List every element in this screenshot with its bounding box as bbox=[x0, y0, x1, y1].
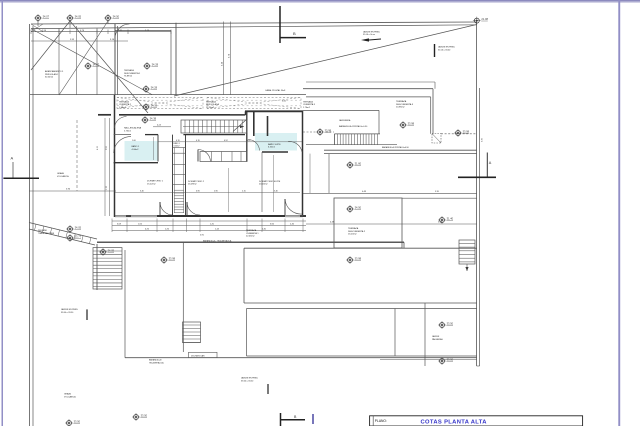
suite entry door arc bbox=[248, 140, 260, 151]
svg-text:PERGOLADO: PERGOLADO bbox=[45, 73, 59, 76]
pergola diagonal right bbox=[70, 21, 148, 113]
dim line 5.90 bbox=[29, 190, 116, 192]
svg-text:TERRAZA: TERRAZA bbox=[124, 69, 134, 72]
svg-text:33.98: 33.98 bbox=[408, 121, 415, 125]
svg-text:0.70: 0.70 bbox=[176, 140, 180, 142]
wardrobe bedroom 2 bbox=[200, 152, 247, 162]
spot level marker 34.39 bbox=[142, 103, 158, 111]
svg-text:34.05: 34.05 bbox=[75, 225, 82, 229]
top dimension line 2 bbox=[31, 40, 128, 42]
svg-text:JARDIN: JARDIN bbox=[432, 335, 440, 338]
svg-text:33.98: 33.98 bbox=[169, 256, 176, 260]
pool outer bbox=[244, 247, 477, 249]
vertical x59 bbox=[58, 29, 60, 95]
street boundary line outer bbox=[29, 24, 31, 426]
svg-text:JARDINERA: JARDINERA bbox=[339, 119, 351, 122]
svg-text:34.50: 34.50 bbox=[355, 205, 362, 209]
window glazing lines bottom wall bbox=[115, 214, 157, 216]
svg-text:DESCUBIERTA 2: DESCUBIERTA 2 bbox=[348, 230, 366, 233]
svg-text:34.28: 34.28 bbox=[151, 85, 158, 89]
vertical x425 bbox=[424, 303, 426, 366]
dim vertical x310 bbox=[309, 154, 311, 194]
drain dashed box bbox=[432, 134, 441, 144]
vertical x329 bbox=[328, 154, 330, 194]
svg-text:33.98: 33.98 bbox=[463, 129, 470, 133]
svg-text:JARDIN EN PEND.: JARDIN EN PEND. bbox=[241, 377, 259, 380]
svg-text:JARDIN EN PEND.: JARDIN EN PEND. bbox=[438, 46, 456, 49]
street boundary line inner bbox=[32, 26, 34, 426]
svg-text:33.50: 33.50 bbox=[74, 419, 81, 423]
svg-text:34.05: 34.05 bbox=[108, 248, 115, 252]
svg-text:A: A bbox=[489, 161, 492, 165]
svg-text:PELDAÑO: PELDAÑO bbox=[38, 229, 48, 232]
svg-text:16.09m2: 16.09m2 bbox=[188, 184, 197, 186]
dorm2 balcony door arc bbox=[187, 202, 200, 215]
svg-text:30.50m2: 30.50m2 bbox=[45, 77, 54, 79]
section marker B top bbox=[279, 6, 281, 43]
svg-text:0.90: 0.90 bbox=[196, 191, 200, 193]
pergola X diagonal bbox=[31, 29, 152, 95]
svg-text:CUBIERTA 2: CUBIERTA 2 bbox=[119, 103, 132, 106]
terrace boundary y193 bbox=[303, 192, 477, 194]
sloped walk with steps bbox=[29, 223, 97, 240]
svg-text:A: A bbox=[11, 156, 14, 161]
spot level marker 33.50 bbox=[65, 419, 81, 426]
spot level marker 33.50 bbox=[438, 357, 454, 365]
pergola diagonal left-down bbox=[59, 21, 108, 95]
svg-text:VOLCANICA: VOLCANICA bbox=[57, 175, 69, 178]
spot level marker 31.60 bbox=[346, 161, 362, 169]
title block bbox=[370, 416, 583, 426]
bath suite door arc bbox=[288, 141, 302, 152]
svg-text:DESCUBIERTA 3: DESCUBIERTA 3 bbox=[396, 103, 414, 106]
purple frame left line bbox=[2, 0, 4, 426]
central shaft cell dividers bbox=[173, 147, 186, 149]
svg-text:10.96m2: 10.96m2 bbox=[396, 107, 405, 109]
svg-text:13.20m2: 13.20m2 bbox=[206, 107, 215, 109]
purple frame top band bbox=[0, 0, 640, 2]
spot level marker 21.08 bbox=[473, 17, 489, 25]
jardinera planter comb hatch bbox=[335, 133, 381, 135]
barandilla lines under jardinera bbox=[324, 149, 477, 151]
pergola slats dashed band bbox=[117, 98, 203, 109]
spot level marker 34.05 bbox=[99, 248, 115, 256]
dim vertical dorm2 bbox=[228, 168, 230, 212]
lower terrace bottom line bbox=[125, 357, 477, 359]
spot level marker 34.07 bbox=[84, 62, 100, 70]
house right wall (thick) bbox=[302, 111, 304, 217]
spot level marker 33.98 bbox=[160, 256, 176, 264]
svg-text:GRAVA: GRAVA bbox=[64, 393, 71, 396]
spot level marker 33.98 bbox=[454, 129, 470, 137]
dim line y192 bbox=[115, 192, 300, 194]
svg-text:5.73m2: 5.73m2 bbox=[124, 130, 132, 132]
jardinera upper box bbox=[303, 109, 379, 111]
terrace boundary y198 bbox=[402, 197, 477, 199]
svg-text:COTAS PLANTA ALTA: COTAS PLANTA ALTA bbox=[421, 419, 488, 425]
suite wardrobe front (thick) bbox=[262, 151, 288, 153]
svg-text:TERRAZA: TERRAZA bbox=[246, 229, 257, 232]
svg-text:CUBIERTA 1: CUBIERTA 1 bbox=[246, 232, 259, 235]
svg-text:33.98: 33.98 bbox=[325, 128, 332, 132]
svg-text:1.62: 1.62 bbox=[247, 140, 251, 142]
interior staircase bbox=[181, 120, 247, 133]
svg-text:34.28: 34.28 bbox=[152, 62, 159, 66]
svg-text:31.06 a 3x.xx: 31.06 a 3x.xx bbox=[363, 34, 375, 36]
spot level marker 34.28 bbox=[142, 85, 158, 93]
pool inner divider bbox=[394, 309, 396, 357]
svg-text:0.52: 0.52 bbox=[224, 140, 228, 142]
dim vertical in bano1 bbox=[153, 137, 155, 160]
svg-text:3.40: 3.40 bbox=[274, 191, 278, 193]
svg-text:DUCHA SOLAR: DUCHA SOLAR bbox=[191, 355, 205, 358]
spot level marker 34.28 bbox=[143, 62, 159, 70]
site top boundary lines bbox=[31, 22, 477, 24]
dim line below house 2 bbox=[112, 225, 306, 227]
small stair right bbox=[459, 240, 475, 264]
terraza descubierta 3 walls bbox=[303, 88, 433, 90]
svg-text:21.08: 21.08 bbox=[481, 17, 488, 21]
right boundary double vertical bbox=[476, 22, 478, 366]
svg-text:APARCAMIENTO 5: APARCAMIENTO 5 bbox=[45, 70, 64, 73]
dim line below house 1 bbox=[112, 220, 306, 222]
svg-text:6.35m2: 6.35m2 bbox=[268, 147, 276, 149]
svg-text:76.89m2: 76.89m2 bbox=[124, 76, 133, 78]
svg-text:1.76m2: 1.76m2 bbox=[303, 107, 311, 109]
svg-text:TERRAZA: TERRAZA bbox=[303, 100, 313, 103]
terraza descubierta 1 walls bbox=[114, 24, 116, 95]
spot level marker 34.38 bbox=[141, 116, 157, 124]
svg-text:TERRAZA: TERRAZA bbox=[348, 227, 359, 230]
svg-text:34.07: 34.07 bbox=[93, 62, 100, 66]
spot level marker 34.07 bbox=[34, 14, 50, 22]
svg-text:BAÑO SUITE: BAÑO SUITE bbox=[268, 143, 281, 146]
svg-text:3.40: 3.40 bbox=[140, 191, 144, 193]
svg-text:2.90: 2.90 bbox=[214, 191, 218, 193]
corner tick diagonal 1 bbox=[31, 24, 43, 32]
bathroom suite cyan fill bbox=[255, 133, 297, 151]
svg-text:34.39: 34.39 bbox=[151, 103, 158, 107]
dim line below house 3 bbox=[112, 230, 306, 232]
svg-text:BARANDILLA CRISTAL H=0.90: BARANDILLA CRISTAL H=0.90 bbox=[382, 146, 409, 149]
svg-text:TRAVIESAS TREN: TRAVIESAS TREN bbox=[38, 232, 55, 235]
svg-text:CUBIERTA 3: CUBIERTA 3 bbox=[303, 103, 316, 106]
svg-text:BARANDILLA /: BARANDILLA / bbox=[149, 359, 162, 362]
svg-text:33.50: 33.50 bbox=[141, 413, 148, 417]
spot level marker 34.50 bbox=[346, 205, 362, 213]
bath1 door arc bbox=[114, 137, 131, 153]
svg-text:JARDIN EN PEND.: JARDIN EN PEND. bbox=[363, 30, 381, 33]
svg-text:31.60: 31.60 bbox=[355, 161, 362, 165]
exterior stair left bbox=[93, 248, 122, 289]
house left wall (thick) bbox=[114, 95, 116, 217]
bathroom 1 cyan fill bbox=[125, 141, 158, 161]
svg-text:TERRAZA: TERRAZA bbox=[206, 100, 216, 103]
lower terrace mid vertical bbox=[182, 242, 184, 352]
svg-text:34.50: 34.50 bbox=[113, 14, 120, 18]
stair break line bbox=[233, 120, 247, 132]
spot level marker 33.98 bbox=[346, 256, 362, 264]
svg-text:33.60 a 33.50: 33.60 a 33.50 bbox=[61, 312, 74, 314]
svg-text:4.44m2: 4.44m2 bbox=[132, 149, 140, 151]
hall entry door arc bbox=[115, 116, 127, 128]
corner tick diagonal 2 bbox=[31, 24, 43, 32]
dim line y142 bbox=[158, 141, 302, 143]
svg-text:16.20m2: 16.20m2 bbox=[348, 234, 357, 236]
gate door arc bbox=[115, 24, 130, 39]
marker leader ticks bbox=[37, 21, 39, 26]
spot level marker 33.50 bbox=[132, 413, 148, 421]
spot level marker 34.50 bbox=[104, 14, 120, 22]
svg-text:2.15: 2.15 bbox=[242, 191, 246, 193]
svg-text:BARANDILLA CRISTAL H=0.90: BARANDILLA CRISTAL H=0.90 bbox=[339, 125, 368, 128]
svg-text:34.07: 34.07 bbox=[43, 14, 50, 18]
spot level marker 33.50 bbox=[438, 321, 454, 329]
interior dim line left bbox=[104, 118, 106, 216]
spot level marker 33.98 bbox=[316, 128, 332, 136]
svg-text:31.40: 31.40 bbox=[447, 216, 454, 220]
spot level marker 33.77 bbox=[66, 234, 82, 242]
svg-text:CANAL PLUVIAL 30x8: CANAL PLUVIAL 30x8 bbox=[265, 89, 286, 92]
svg-text:1.98m2: 1.98m2 bbox=[119, 107, 127, 109]
suite partition thin bbox=[261, 152, 263, 212]
svg-text:31.06 a 33.00: 31.06 a 33.00 bbox=[438, 49, 451, 51]
terraza descubierta 2 box bbox=[334, 198, 402, 248]
exterior stair 2 (ducha) bbox=[183, 322, 201, 343]
svg-text:DESCUBIERTA 1: DESCUBIERTA 1 bbox=[124, 72, 141, 75]
suite balcony door arc bbox=[285, 199, 302, 214]
svg-text:34.38: 34.38 bbox=[150, 116, 157, 120]
vertical dim line 5.70 bbox=[230, 22, 232, 95]
svg-text:DORMITORIO 2: DORMITORIO 2 bbox=[188, 181, 205, 183]
spot level marker 31.40 bbox=[438, 216, 454, 224]
svg-text:33.50: 33.50 bbox=[447, 321, 454, 325]
pergola diagonal left bbox=[31, 21, 70, 70]
site long diagonal from NE corner bbox=[174, 25, 477, 97]
dorm1 balcony door arc bbox=[160, 202, 173, 215]
svg-text:15.22m2: 15.22m2 bbox=[147, 183, 156, 185]
dashed boundary x77 bbox=[76, 120, 78, 191]
vertical x97 bbox=[96, 28, 98, 94]
svg-text:TERRAZA: TERRAZA bbox=[119, 100, 129, 103]
svg-text:TERRAZA: TERRAZA bbox=[396, 100, 407, 103]
dim vertical suite bbox=[272, 155, 274, 212]
central shaft ladder rungs bbox=[174, 189, 183, 191]
svg-text:TELA METALICA: TELA METALICA bbox=[149, 361, 164, 364]
svg-text:20.00m2: 20.00m2 bbox=[259, 184, 268, 186]
svg-text:VOLCANICA: VOLCANICA bbox=[64, 395, 76, 398]
section marker B bottom bbox=[280, 413, 282, 426]
svg-text:JARDIN EN PEND.: JARDIN EN PEND. bbox=[61, 308, 79, 311]
ducha solar box bbox=[189, 352, 218, 357]
svg-text:PLANO:: PLANO: bbox=[375, 419, 387, 423]
house top boundary line bbox=[30, 94, 306, 96]
house top wall (thick) bbox=[98, 114, 111, 116]
svg-text:GRAVA: GRAVA bbox=[57, 172, 64, 175]
svg-text:DORMITORIO 1: DORMITORIO 1 bbox=[147, 180, 164, 182]
svg-text:0.70: 0.70 bbox=[196, 140, 200, 142]
svg-text:PERGOLADA: PERGOLADA bbox=[206, 103, 220, 106]
vertical x76 bbox=[76, 26, 78, 95]
top dimension line 1 bbox=[31, 31, 171, 33]
dim line right bbox=[306, 223, 477, 225]
interior walls bbox=[246, 111, 248, 161]
purple frame right line bbox=[618, 0, 620, 426]
house bottom wall segments (thick) bbox=[157, 215, 247, 217]
svg-text:B: B bbox=[293, 31, 296, 36]
spot level marker 33.98 bbox=[399, 121, 415, 129]
vertical dim line 5.16 bbox=[223, 22, 225, 95]
pool inner bbox=[247, 308, 477, 310]
central column: armario + shaft + ladder bbox=[172, 135, 174, 216]
svg-text:BAÑO 1: BAÑO 1 bbox=[132, 145, 140, 148]
spot level marker 34.05 bbox=[66, 14, 82, 22]
lower terrace left vertical bbox=[124, 250, 126, 358]
spot level marker 34.05 bbox=[66, 225, 82, 233]
svg-text:PALMERAS: PALMERAS bbox=[432, 338, 443, 341]
svg-text:33.60 a 33.50: 33.60 a 33.50 bbox=[241, 380, 254, 382]
svg-text:34.05: 34.05 bbox=[75, 14, 82, 18]
dorm2 door arc bbox=[198, 150, 211, 162]
svg-text:1.06: 1.06 bbox=[132, 140, 136, 142]
svg-text:33.98: 33.98 bbox=[355, 256, 362, 260]
svg-text:HALL-ESCALERA: HALL-ESCALERA bbox=[124, 127, 142, 130]
blue tick near B bottom bbox=[312, 414, 314, 424]
svg-text:DORMITORIO SUITE: DORMITORIO SUITE bbox=[259, 181, 281, 183]
double bottom line right bbox=[380, 359, 477, 361]
svg-text:22.46m2: 22.46m2 bbox=[246, 236, 255, 238]
